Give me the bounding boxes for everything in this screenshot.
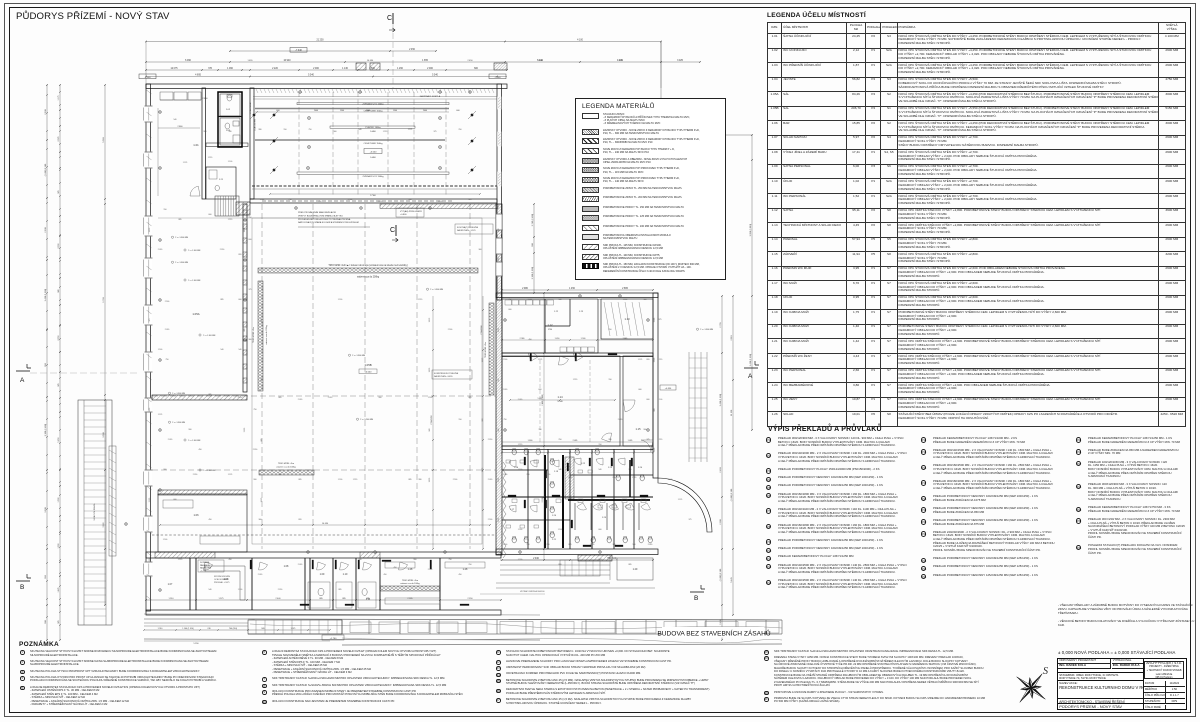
svg-text:14400: 14400 [370, 157, 376, 159]
svg-text:1 425: 1 425 [58, 587, 60, 593]
svg-text:6 090: 6 090 [185, 60, 191, 62]
svg-text:2 400 (1 900): 2 400 (1 900) [750, 354, 752, 367]
svg-text:Y = +1.300 MM: Y = +1.300 MM [175, 262, 188, 264]
svg-text:2000: 2000 [423, 110, 427, 112]
legend of materials [575, 98, 726, 280]
wall: top wing east exterior [497, 84, 502, 300]
svg-text:PLATNO 100kg: PLATNO 100kg [365, 126, 381, 129]
svg-text:300: 300 [644, 299, 647, 301]
svg-text:2 980: 2 980 [520, 338, 525, 340]
svg-text:-7.040: -7.040 [144, 77, 151, 79]
svg-text:-7.040: -7.040 [295, 50, 302, 52]
svg-text:1 970: 1 970 [482, 358, 484, 362]
dimension chain top 1 [146, 41, 661, 43]
svg-text:6 240: 6 240 [537, 60, 543, 62]
svg-text:900: 900 [164, 469, 167, 471]
stage extra lines [253, 96, 497, 98]
svg-text:zatizeni cca do 100kg: zatizeni cca do 100kg [276, 466, 295, 469]
svg-text:1 910: 1 910 [168, 598, 174, 600]
room purpose legend table [767, 12, 866, 19]
svg-text:TRIO M290 i 3m: TRIO M290 i 3m [278, 463, 294, 465]
svg-text:2 860: 2 860 [202, 98, 208, 100]
svg-text:1500: 1500 [340, 110, 344, 112]
svg-text:2 000: 2 000 [427, 68, 433, 70]
dimension chain left outer [46, 85, 48, 640]
svg-text:2 220: 2 220 [272, 68, 278, 70]
svg-text:1 485: 1 485 [628, 440, 633, 442]
svg-text:2 400 (1 900): 2 400 (1 900) [45, 289, 47, 302]
svg-text:2 020: 2 020 [654, 358, 656, 362]
svg-text:1.12: 1.12 [547, 323, 553, 327]
svg-text:900: 900 [204, 131, 207, 133]
1.13 ladder hatch [604, 302, 610, 336]
wc cluster black sdk walls [544, 455, 546, 548]
svg-text:375: 375 [629, 469, 632, 471]
svg-text:1 500: 1 500 [518, 529, 522, 531]
svg-text:900: 900 [189, 429, 192, 431]
svg-text:900: 900 [482, 419, 484, 422]
svg-text:NA UROVEN +3.655: NA UROVEN +3.655 [434, 375, 453, 378]
svg-text:B: B [694, 595, 698, 602]
svg-text:1 200: 1 200 [546, 474, 550, 476]
svg-text:14400: 14400 [370, 131, 376, 133]
wall markers (circled) [159, 111, 162, 114]
svg-text:2 440: 2 440 [275, 598, 281, 600]
svg-text:1 200: 1 200 [338, 299, 342, 301]
svg-text:CCA 1300 MM: CCA 1300 MM [254, 119, 257, 131]
svg-text:1 500: 1 500 [58, 497, 60, 503]
svg-text:375: 375 [659, 319, 662, 321]
svg-text:1 060: 1 060 [227, 68, 233, 70]
partition above wc cluster [502, 446, 653, 450]
svg-text:2 900: 2 900 [498, 518, 500, 522]
svg-text:+1.760: +1.760 [330, 638, 338, 640]
svg-text:1.02: 1.02 [226, 109, 231, 111]
label existing building [662, 627, 764, 638]
wall: stage left [250, 88, 254, 199]
svg-text:3 025: 3 025 [677, 60, 683, 62]
hatch ramp below cluster [578, 555, 612, 561]
bar counter 1.08 [205, 566, 245, 600]
svg-text:600: 600 [509, 309, 512, 311]
svg-text:1 100: 1 100 [668, 479, 672, 481]
svg-text:1.05B: 1.05B [364, 363, 371, 367]
svg-text:600: 600 [639, 389, 642, 391]
wc cluster rooms [527, 449, 529, 549]
dimension chain top 5 [146, 76, 507, 78]
entrance outdoor stair [248, 620, 342, 634]
svg-text:5 445: 5 445 [731, 577, 733, 583]
svg-text:9 790: 9 790 [103, 297, 105, 303]
wall: right wing east [653, 293, 658, 478]
svg-text:2 020: 2 020 [258, 574, 262, 576]
svg-text:150: 150 [498, 379, 500, 382]
wall: hall south [146, 552, 501, 558]
svg-text:4 695: 4 695 [195, 75, 201, 77]
svg-text:1 100: 1 100 [429, 368, 431, 372]
svg-text:3 960: 3 960 [103, 522, 105, 528]
note block: vyskovy parapet [198, 560, 224, 572]
svg-text:1 970: 1 970 [178, 559, 182, 561]
svg-text:2 350: 2 350 [238, 397, 242, 399]
svg-text:2 020: 2 020 [298, 399, 302, 401]
wall: stage front (jeviste) [250, 199, 497, 203]
svg-text:B: B [20, 584, 24, 591]
black door leafs bottom [250, 560, 252, 569]
svg-text:1.08: 1.08 [284, 565, 289, 568]
svg-text:1 970: 1 970 [228, 219, 232, 221]
svg-text:1.06: 1.06 [193, 513, 199, 517]
svg-text:540: 540 [209, 589, 212, 591]
svg-text:2 350: 2 350 [428, 569, 432, 571]
hall grid dashed lines [261, 204, 263, 549]
svg-text:TRIO M290 i 3m: TRIO M290 i 3m [485, 342, 487, 358]
svg-text:1 970: 1 970 [518, 444, 522, 446]
svg-text:1 655: 1 655 [247, 60, 253, 62]
hall top edge line [158, 217, 496, 219]
svg-text:Y = +5.240 MM: Y = +5.240 MM [360, 419, 373, 421]
svg-text:Y = +1.300 MM: Y = +1.300 MM [700, 329, 713, 331]
svg-text:2 350: 2 350 [149, 498, 151, 502]
svg-text:2 110: 2 110 [731, 335, 733, 341]
svg-text:750 (940): 750 (940) [607, 558, 617, 560]
mobile wall dashed line [152, 534, 496, 536]
svg-text:250: 250 [609, 329, 612, 331]
svg-text:3 500: 3 500 [103, 432, 105, 438]
wall tick hatches west wall [147, 90, 152, 94]
svg-text:2 020: 2 020 [488, 479, 492, 481]
title block [1058, 650, 1176, 655]
svg-text:2 865: 2 865 [623, 338, 628, 340]
svg-text:21 250: 21 250 [316, 40, 324, 42]
svg-text:300: 300 [334, 131, 337, 133]
circled markers top wall [299, 91, 302, 94]
svg-text:150: 150 [539, 429, 542, 431]
svg-text:750: 750 [309, 129, 312, 131]
hall internal dim chains [432, 296, 434, 549]
wall: hall east / right wing west [496, 204, 502, 555]
svg-text:2 350: 2 350 [220, 249, 224, 251]
svg-text:1.19: 1.19 [554, 471, 559, 473]
svg-text:+5.000: +5.000 [370, 151, 378, 153]
svg-text:+0.000: +0.000 [365, 372, 373, 374]
svg-text:375: 375 [149, 319, 151, 322]
vytah rolby marker [252, 113, 255, 116]
svg-text:5 540: 5 540 [432, 75, 438, 77]
svg-text:1.22: 1.22 [581, 463, 586, 465]
svg-text:Y = +1.300 MM: Y = +1.300 MM [175, 237, 188, 239]
svg-text:600: 600 [539, 389, 542, 391]
svg-text:1 500: 1 500 [590, 544, 594, 546]
svg-text:5 650: 5 650 [58, 437, 60, 443]
svg-text:300: 300 [249, 339, 252, 341]
svg-text:1 800: 1 800 [528, 440, 533, 442]
stage top inner hatch band [256, 89, 258, 93]
svg-text:375: 375 [647, 439, 650, 441]
partition: 1.05A south hatched wall [152, 395, 247, 400]
svg-text:1 655: 1 655 [422, 60, 428, 62]
wc cluster extra walls [502, 469, 548, 471]
svg-text:Y = +1.300 MM: Y = +1.300 MM [203, 470, 216, 472]
svg-text:1 450: 1 450 [569, 288, 575, 290]
svg-text:1 450: 1 450 [555, 338, 560, 340]
svg-text:VETRACI MRIZKA 300/300: VETRACI MRIZKA 300/300 [520, 590, 545, 593]
svg-text:1 495: 1 495 [617, 60, 623, 62]
room 1.13 [601, 299, 653, 339]
svg-text:1.29: 1.29 [633, 568, 638, 571]
svg-text:(2 400) 1 900: (2 400) 1 900 [45, 163, 47, 176]
svg-text:750: 750 [254, 409, 257, 411]
svg-text:740: 740 [207, 628, 210, 630]
svg-text:PARAPETU: PARAPETU [200, 564, 211, 567]
svg-text:750: 750 [166, 359, 169, 361]
svg-text:A: A [748, 373, 753, 380]
svg-text:150: 150 [609, 379, 612, 381]
svg-text:5 540: 5 540 [308, 75, 314, 77]
svg-text:300: 300 [259, 519, 262, 521]
svg-text:540: 540 [229, 131, 232, 133]
svg-text:C: C [387, 15, 392, 22]
svg-text:250: 250 [613, 477, 616, 479]
svg-text:(2 400) 1 900: (2 400) 1 900 [720, 568, 722, 581]
svg-text:885: 885 [244, 329, 246, 332]
svg-text:600: 600 [647, 399, 650, 401]
svg-text:885: 885 [261, 439, 263, 442]
svg-text:980: 980 [429, 429, 431, 432]
dimension chain top 3 [146, 61, 700, 63]
svg-text:1 500: 1 500 [369, 68, 375, 70]
svg-text:2 900: 2 900 [453, 479, 457, 481]
svg-text:1 125: 1 125 [638, 359, 642, 361]
svg-text:450: 450 [459, 574, 462, 576]
svg-text:1.23: 1.23 [608, 467, 613, 469]
svg-text:Y = +1.300 MM: Y = +1.300 MM [352, 355, 365, 357]
svg-text:1000: 1000 [366, 110, 370, 112]
svg-text:1.21: 1.21 [219, 179, 224, 181]
svg-text:2 900: 2 900 [244, 428, 246, 432]
svg-text:1 200: 1 200 [498, 328, 500, 332]
svg-text:450: 450 [529, 339, 532, 341]
svg-text:250: 250 [559, 439, 562, 441]
svg-text:885: 885 [209, 394, 212, 396]
svg-text:2 020: 2 020 [648, 544, 652, 546]
partition: 1.05A east pilaster wall [243, 204, 247, 392]
svg-text:PRED PROVADENIM SAMONIVELACNI: PRED PROVADENIM SAMONIVELACNI [298, 211, 336, 214]
svg-text:2 755: 2 755 [720, 322, 722, 328]
svg-text:750: 750 [449, 559, 452, 561]
svg-text:A: A [20, 377, 25, 384]
proscenium dashed wall [252, 185, 497, 187]
svg-text:2 285: 2 285 [407, 598, 413, 600]
svg-text:1.23: 1.23 [579, 311, 584, 313]
svg-text:Y = +1.300 MM: Y = +1.300 MM [172, 422, 185, 424]
svg-text:1 500: 1 500 [503, 544, 507, 546]
svg-text:450: 450 [199, 449, 202, 451]
note block: vyskova kota [455, 224, 493, 234]
stairs block below stage left [215, 196, 239, 216]
svg-text:1 200: 1 200 [518, 559, 522, 561]
svg-text:2 020: 2 020 [168, 439, 172, 441]
svg-text:21 110: 21 110 [731, 409, 733, 416]
stair terrace bottom right wing [500, 559, 610, 561]
svg-text:OCEL NOSNIKU: OCEL NOSNIKU [214, 579, 229, 581]
svg-text:10 940: 10 940 [283, 60, 291, 62]
truss band TRIO M290 12m [258, 268, 478, 273]
svg-text:450: 450 [599, 299, 602, 301]
svg-text:885: 885 [299, 479, 302, 481]
svg-text:C: C [390, 227, 395, 234]
svg-text:740 (910): 740 (910) [229, 628, 237, 630]
svg-text:1 260: 1 260 [397, 68, 403, 70]
svg-text:885: 885 [179, 219, 182, 221]
svg-text:1.25: 1.25 [602, 517, 607, 519]
lockers in 1.12 [505, 300, 512, 305]
dimension chain top 2 [230, 50, 436, 52]
room 1.01 closets [160, 92, 173, 100]
svg-text:KOVOVA(?) POSUVNE: KOVOVA(?) POSUVNE [457, 226, 479, 229]
svg-text:1 970: 1 970 [573, 379, 577, 381]
svg-text:1.14: 1.14 [557, 395, 563, 399]
door leafs (black) [524, 457, 526, 465]
svg-text:1.10: 1.10 [343, 573, 348, 576]
svg-text:2 900: 2 900 [488, 519, 492, 521]
svg-text:1 500: 1 500 [498, 258, 500, 262]
svg-text:1 125: 1 125 [244, 228, 246, 232]
svg-text:2 020: 2 020 [518, 399, 522, 401]
svg-text:VYT(AH) PRISLUSENY: VYT(AH) PRISLUSENY [400, 210, 423, 213]
svg-text:1 970: 1 970 [632, 477, 636, 479]
svg-text:980: 980 [279, 474, 282, 476]
svg-text:2 350: 2 350 [467, 598, 473, 600]
svg-text:1 100: 1 100 [228, 161, 232, 163]
svg-text:450: 450 [384, 574, 387, 576]
svg-text:2 490: 2 490 [720, 467, 722, 473]
svg-text:1 500: 1 500 [558, 529, 562, 531]
svg-text:1 100 (1 910): 1 100 (1 910) [182, 628, 194, 630]
boxed level top left [139, 74, 156, 79]
threshold hatch below stage [380, 204, 498, 209]
svg-text:Y = +1.300 MM: Y = +1.300 MM [172, 393, 185, 395]
svg-text:BUDOVA BEZ STAVEBNÍCH ZÁSAHŮ: BUDOVA BEZ STAVEBNÍCH ZÁSAHŮ [657, 629, 770, 638]
svg-text:2 100 (2 400): 2 100 (2 400) [45, 424, 47, 437]
room 1.06 bar [158, 494, 247, 552]
1.14 doors [530, 353, 532, 361]
svg-text:1.05A: 1.05A [192, 312, 199, 316]
svg-text:900: 900 [414, 559, 417, 561]
svg-text:150: 150 [164, 209, 167, 211]
svg-text:820: 820 [469, 199, 472, 201]
svg-text:150: 150 [498, 229, 500, 232]
svg-text:540: 540 [599, 469, 602, 471]
svg-text:CCA 5450: CCA 5450 [430, 415, 433, 425]
svg-text:300: 300 [479, 249, 482, 251]
small dims right wing [502, 289, 653, 291]
svg-text:(2 400) 1 900: (2 400) 1 900 [731, 488, 733, 501]
svg-text:1 970: 1 970 [482, 468, 484, 472]
terrace below right wing [496, 582, 610, 584]
svg-text:1 200: 1 200 [338, 479, 342, 481]
svg-text:1.24: 1.24 [638, 467, 643, 469]
svg-text:750: 750 [261, 379, 263, 382]
svg-text:900: 900 [379, 397, 382, 399]
svg-text:750: 750 [527, 544, 530, 546]
svg-text:375: 375 [613, 544, 616, 546]
wall: south exterior (bottom wing) [146, 610, 501, 615]
svg-text:1 125: 1 125 [228, 474, 232, 476]
svg-text:600: 600 [456, 110, 459, 112]
svg-text:980: 980 [609, 439, 612, 441]
svg-text:2 900: 2 900 [503, 359, 507, 361]
svg-text:TRIO M290 i 3m: TRIO M290 i 3m [402, 580, 418, 582]
svg-text:1.28: 1.28 [408, 568, 413, 571]
svg-text:885: 885 [629, 564, 632, 566]
svg-text:1.07: 1.07 [168, 583, 173, 586]
svg-text:5790: 5790 [548, 329, 552, 331]
svg-text:+0.350: +0.350 [665, 388, 672, 390]
svg-text:2 900: 2 900 [149, 408, 151, 412]
svg-text:2 020: 2 020 [498, 478, 500, 482]
svg-text:600: 600 [249, 239, 252, 241]
svg-text:2 350: 2 350 [654, 318, 656, 322]
svg-text:2 020: 2 020 [503, 389, 507, 391]
svg-text:540: 540 [359, 129, 362, 131]
svg-text:885: 885 [342, 598, 346, 600]
room 1.15 zadveri [623, 356, 653, 446]
svg-text:TRIO M290 i 3m: TRIO M290 i 3m [253, 327, 255, 343]
svg-text:2 350: 2 350 [278, 589, 282, 591]
svg-text:750: 750 [509, 299, 512, 301]
stage battens [297, 103, 449, 105]
level marks 1.05A [184, 249, 186, 251]
svg-text:Y = +1.300 MM: Y = +1.300 MM [188, 250, 201, 252]
svg-text:1 100: 1 100 [658, 399, 662, 401]
svg-text:1 125: 1 125 [183, 162, 187, 164]
svg-text:17100: 17100 [370, 195, 376, 197]
svg-text:SPODNI UROVEN: SPODNI UROVEN [214, 576, 230, 578]
svg-text:VENKOVNI RAMPA: VENKOVNI RAMPA [93, 503, 96, 521]
svg-text:1 125: 1 125 [678, 499, 682, 501]
svg-text:980: 980 [419, 479, 422, 481]
truss band vertical left [258, 281, 263, 391]
svg-text:1 970: 1 970 [353, 479, 357, 481]
note block: nosna konstr [432, 370, 472, 379]
svg-text:1 130: 1 130 [342, 68, 348, 70]
svg-text:375: 375 [689, 519, 692, 521]
svg-text:1 900: 1 900 [581, 338, 586, 340]
svg-text:900: 900 [254, 479, 257, 481]
dimension chain right wing east [721, 296, 723, 640]
svg-text:NA UROVEN: NA UROVEN [200, 567, 212, 570]
svg-text:1 970: 1 970 [658, 359, 662, 361]
svg-text:1 500: 1 500 [260, 199, 264, 201]
stage anchors [272, 113, 275, 116]
column markers on 1.05A partition [244, 219, 247, 222]
svg-text:2 865: 2 865 [622, 288, 628, 290]
svg-text:1 500: 1 500 [518, 469, 522, 471]
svg-text:600: 600 [174, 499, 177, 501]
svg-text:1 125: 1 125 [429, 318, 431, 322]
svg-text:zatizeni cca do 200kg: zatizeni cca do 200kg [357, 276, 380, 279]
svg-text:820: 820 [299, 519, 302, 521]
svg-text:450: 450 [409, 199, 412, 201]
svg-text:2 020: 2 020 [528, 299, 532, 301]
svg-text:1 500: 1 500 [158, 349, 162, 351]
room 1.12 satna [502, 299, 598, 353]
compass rose [1017, 674, 1045, 702]
room 1.02/1.03 wc block [218, 92, 242, 147]
wc cluster sinks row [512, 499, 517, 503]
room 1.12 partitions [544, 299, 546, 353]
